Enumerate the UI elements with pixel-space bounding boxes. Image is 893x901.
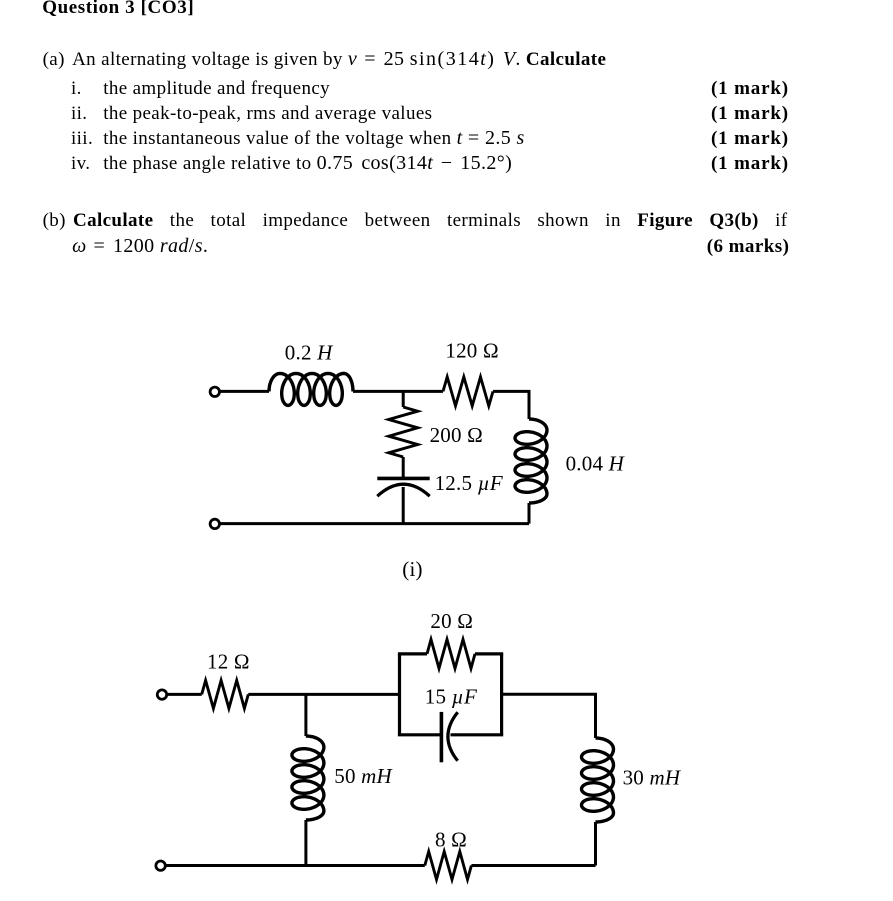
capacitor 12.5 uF plate <box>377 477 429 481</box>
title <box>42 0 194 18</box>
svg-text:20 Ω: 20 Ω <box>430 609 473 633</box>
svg-text:0.2 H: 0.2 H <box>285 341 334 365</box>
bottom rail wire <box>220 522 530 525</box>
inductor 30 mH <box>582 738 614 822</box>
wire <box>402 457 405 477</box>
svg-text:120 Ω: 120 Ω <box>445 339 498 363</box>
capacitor 15 uF curved plate <box>448 712 458 761</box>
wire corner right <box>493 391 529 419</box>
bottom rail wire right <box>471 864 595 867</box>
svg-text:50 mH: 50 mH <box>334 764 393 788</box>
resistor 12 ohm <box>202 680 249 708</box>
wire <box>594 822 597 866</box>
box left edge <box>398 654 401 735</box>
box bottom-right segment <box>451 733 504 736</box>
wire <box>528 503 531 524</box>
wire to right corner <box>502 694 596 738</box>
inductor 0.04 H <box>515 419 547 503</box>
inductor 0.2 H <box>269 373 353 405</box>
svg-text:12.5 µF: 12.5 µF <box>435 471 503 495</box>
resistor 120 ohm <box>443 377 493 406</box>
inductor 50 mH <box>292 736 324 820</box>
svg-text:30 mH: 30 mH <box>623 766 682 790</box>
bottom rail wire left <box>165 864 425 867</box>
node junction wire <box>402 391 405 407</box>
wire <box>353 390 443 393</box>
box right edge <box>500 654 503 735</box>
wire <box>248 693 399 696</box>
paragraph (b) line 2 <box>0 235 893 237</box>
svg-text:0.04 H: 0.04 H <box>566 451 626 475</box>
item iii <box>0 127 893 129</box>
capacitor 15 uF plate <box>440 712 444 762</box>
svg-text:8 Ω: 8 Ω <box>435 827 467 851</box>
paragraph (a) <box>0 48 893 50</box>
svg-text:(i): (i) <box>402 557 422 581</box>
svg-text:200 Ω: 200 Ω <box>430 423 483 447</box>
svg-text:12 Ω: 12 Ω <box>207 649 250 673</box>
wire <box>167 693 202 696</box>
wire <box>402 487 405 524</box>
wire <box>220 390 270 393</box>
resistor 20 ohm <box>427 639 475 668</box>
junction wire down <box>304 694 307 736</box>
item iv <box>0 152 893 154</box>
capacitor 12.5 uF curved plate <box>377 484 429 496</box>
terminal bottom-left circuit 2 <box>156 861 165 870</box>
paragraph (b) line 1 justified <box>43 210 66 231</box>
terminal top-left circuit 2 <box>157 690 166 699</box>
resistor 200 ohm <box>389 407 418 457</box>
svg-text:15 µF: 15 µF <box>425 685 477 709</box>
terminal bottom-left circuit 1 <box>210 519 219 528</box>
terminal top-left circuit 1 <box>210 387 219 396</box>
box top-right segment <box>475 652 503 655</box>
item i <box>0 77 893 79</box>
wire <box>304 820 307 866</box>
resistor 8 ohm <box>425 852 472 880</box>
box top-left segment <box>398 652 427 655</box>
item ii <box>0 102 893 104</box>
box bottom-left segment <box>398 733 442 736</box>
